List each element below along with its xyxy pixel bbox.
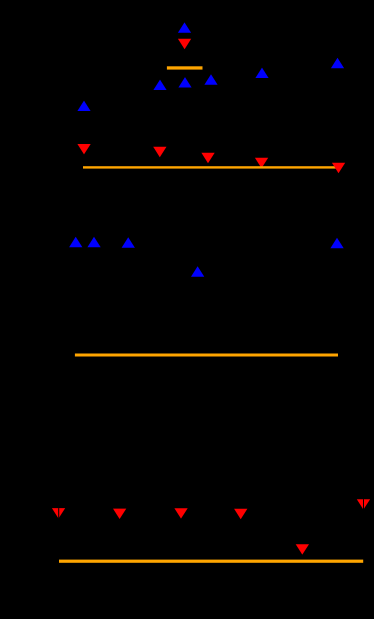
blue up markers row 1 [331,58,344,68]
red down markers bottom row [113,509,126,519]
orange long bar middle [75,354,338,357]
red down split marker left [52,508,65,518]
orange long bar bottom [59,560,363,563]
red down markers row 1 [77,144,90,154]
red down split marker right [357,499,370,509]
red down marker low [296,544,309,554]
orange short bar [167,66,203,69]
red down marker over line end [332,163,345,173]
orange thin long line [83,166,337,168]
blue up marker top pair [178,22,191,32]
red down marker top pair [178,39,191,49]
blue up markers row 2 [69,237,82,247]
